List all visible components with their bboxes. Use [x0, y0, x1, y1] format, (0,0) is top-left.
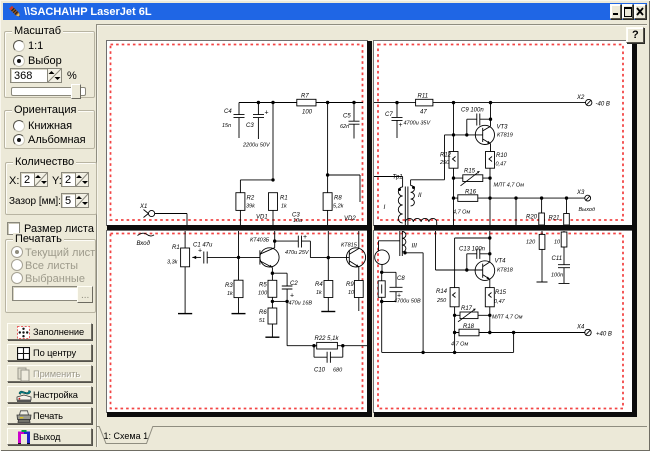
node junction dots on rail: [257, 101, 260, 104]
resistor R16: [454, 197, 491, 199]
svg-text:0,47: 0,47: [494, 299, 506, 305]
svg-text:R18: R18: [463, 324, 475, 330]
wire from tile1 R8: [327, 231, 329, 258]
svg-text:VT3: VT3: [497, 125, 509, 131]
button Настройка: [7, 386, 92, 403]
svg-text:R1: R1: [172, 245, 180, 251]
resistor R11: [416, 99, 433, 106]
capacitor C8 electrolytic: [382, 272, 403, 301]
resistor R4: [327, 258, 329, 281]
checkbox Размер листа: [7, 222, 20, 235]
trimmer R17: [455, 314, 490, 316]
svg-text:39k: 39k: [246, 204, 255, 210]
wire R12 branch: [453, 103, 455, 152]
wire feedback: [287, 301, 314, 345]
wire winding I to speaker: [379, 241, 400, 252]
capacitor C4: [234, 103, 245, 139]
svg-text:470u 25V: 470u 25V: [285, 250, 310, 256]
transistor VT3: [475, 125, 494, 144]
terminal X2: [586, 99, 592, 105]
button Заполнение: [7, 323, 92, 340]
svg-text:II: II: [418, 192, 422, 199]
wire to VD2: [328, 175, 360, 202]
svg-text:R21: R21: [549, 216, 560, 222]
resistor R3: [238, 231, 240, 280]
svg-text:X3: X3: [576, 190, 585, 196]
page 1 margin (red dashed): [111, 45, 363, 221]
svg-text:62n: 62n: [340, 124, 349, 130]
svg-text:47: 47: [420, 110, 427, 116]
sidebar divider: [96, 24, 97, 447]
resistor R2: [236, 193, 245, 211]
close button: [634, 4, 646, 19]
wire base VT3: [445, 134, 483, 136]
svg-text:R16: R16: [465, 190, 477, 196]
potentiometer R1: [184, 231, 186, 248]
svg-text:КТ403Б: КТ403Б: [250, 238, 270, 244]
help button: [626, 27, 644, 43]
svg-text:VD2: VD2: [344, 216, 356, 222]
group Печатать: [5, 239, 96, 313]
ground: [232, 313, 246, 315]
node emitter dot: [271, 272, 274, 275]
svg-text:R11: R11: [418, 94, 429, 100]
winding III (horizontal, cut): [406, 218, 437, 222]
page 3 margin (red dashed): [111, 234, 363, 409]
svg-text:C1 47u: C1 47u: [193, 243, 213, 249]
resistor R18: [455, 332, 490, 334]
page 4 margin (red dashed): [378, 234, 623, 409]
trimmer R15: [454, 177, 491, 179]
transistor VT1: [260, 248, 279, 267]
svg-text:R15: R15: [495, 290, 507, 296]
svg-text:C9 100n: C9 100n: [461, 108, 484, 114]
resistor R21: [566, 198, 568, 213]
wire to VT1 base: [239, 256, 260, 258]
fuse element: [381, 272, 383, 281]
svg-text:15n: 15n: [222, 123, 231, 129]
svg-text:VD1: VD1: [256, 215, 268, 221]
resistor R9: [354, 281, 363, 298]
capacitor C13: [467, 249, 490, 270]
svg-text:120: 120: [526, 240, 536, 246]
wire to X4: [490, 332, 585, 334]
svg-text:-40 В: -40 В: [596, 102, 610, 108]
capacitor C2 electrolytic: [272, 273, 292, 301]
min button: [610, 4, 621, 19]
resistor R12: [449, 152, 458, 169]
svg-text:R15: R15: [464, 169, 476, 175]
wire from X1: [155, 214, 187, 226]
svg-text:R5: R5: [259, 283, 267, 289]
svg-text:I: I: [384, 204, 386, 211]
svg-text:R6: R6: [259, 310, 267, 316]
node A dot: [271, 178, 274, 181]
svg-text:C11: C11: [552, 256, 563, 262]
svg-text:4700u 50В: 4700u 50В: [394, 299, 421, 305]
junction dots: [395, 101, 398, 104]
svg-text:VT4: VT4: [495, 259, 507, 265]
resistor R10: [486, 152, 495, 169]
svg-text:C4: C4: [224, 109, 232, 115]
svg-text:680: 680: [333, 368, 343, 374]
svg-text:III: III: [412, 243, 418, 250]
svg-text:R17: R17: [461, 306, 473, 312]
winding start dots: [398, 188, 401, 191]
page 2 margin (red dashed): [378, 45, 623, 221]
svg-text:10: 10: [554, 240, 561, 246]
svg-text:4700u 35V: 4700u 35V: [404, 121, 432, 127]
client panel top groove: [96, 24, 647, 25]
svg-text:R7: R7: [301, 94, 309, 100]
capacitor C5: [349, 103, 360, 139]
svg-text:КТ815: КТ815: [341, 243, 358, 249]
svg-text:10: 10: [348, 290, 355, 296]
capacitor C7 electrolytic: [392, 103, 403, 138]
winding II: [411, 135, 445, 186]
wire supply rail: [239, 102, 363, 104]
svg-text:Вход: Вход: [137, 241, 151, 247]
svg-text:R2: R2: [247, 196, 255, 202]
connector X1 (cut): [138, 233, 155, 236]
svg-text:КТ819: КТ819: [497, 133, 513, 139]
wire below R12: [453, 168, 455, 225]
svg-text:КТ818: КТ818: [497, 268, 514, 274]
svg-text:470u 16В: 470u 16В: [289, 301, 313, 307]
svg-text:+: +: [198, 248, 202, 255]
wire branch: [515, 198, 517, 225]
sheet tab: [94, 426, 164, 445]
svg-text:МЛТ 4,7 Ом: МЛТ 4,7 Ом: [492, 315, 523, 321]
wires below resistors: [455, 307, 490, 353]
svg-text:4,7 Ом: 4,7 Ом: [451, 342, 468, 348]
svg-text:C8: C8: [397, 276, 405, 282]
button По центру: [7, 344, 92, 361]
svg-text:R22 5,1k: R22 5,1k: [315, 336, 340, 342]
wire R8 branch: [327, 103, 329, 176]
wire supply rail: [374, 102, 586, 104]
svg-text:R8: R8: [334, 196, 342, 202]
svg-text:Тр1: Тр1: [393, 175, 403, 181]
svg-text:2200u 50V: 2200u 50V: [242, 143, 271, 149]
group Ориентация: [4, 110, 95, 149]
svg-text:+: +: [399, 122, 403, 129]
button Печать: [7, 407, 92, 424]
terminal X3: [585, 195, 591, 201]
svg-text:C2: C2: [290, 281, 298, 287]
slider: [11, 87, 86, 96]
resistor R20 (cont.): [541, 231, 543, 234]
resistor R22: [317, 342, 338, 349]
capacitor C10: [314, 346, 343, 363]
resistor R20: [541, 198, 543, 213]
svg-text:C7: C7: [385, 112, 393, 118]
wire center vertical: [272, 103, 274, 180]
svg-text:5,2k: 5,2k: [333, 204, 344, 210]
svg-text:X1: X1: [139, 204, 147, 210]
svg-text:МЛТ 4,7 Ом: МЛТ 4,7 Ом: [494, 183, 525, 189]
svg-text:R9: R9: [346, 282, 354, 288]
resistor R8: [323, 193, 332, 211]
svg-text:X2: X2: [576, 95, 585, 101]
wire feedback bottom: [382, 333, 514, 353]
svg-text:C5: C5: [343, 114, 351, 120]
resistor R7: [297, 99, 316, 106]
wire base VT4: [465, 268, 468, 271]
resistor R5: [271, 273, 273, 280]
capacitor C9: [467, 114, 491, 135]
svg-text:51: 51: [259, 318, 265, 324]
wire top loop: [436, 231, 483, 270]
svg-text:Выход: Выход: [579, 207, 596, 213]
svg-text:C13 100n: C13 100n: [459, 247, 486, 253]
transformer core (cont.): [400, 231, 403, 256]
svg-text:C10: C10: [314, 368, 326, 374]
wire from winding III: [405, 253, 423, 353]
svg-text:R10: R10: [496, 153, 508, 159]
button Применить (disabled): [7, 365, 92, 382]
transistor VT2: [346, 248, 365, 267]
svg-text:0,47: 0,47: [496, 162, 508, 168]
ground: [265, 336, 279, 338]
svg-text:+40 В: +40 В: [596, 332, 612, 338]
svg-text:+: +: [290, 293, 294, 300]
max button: [622, 4, 633, 19]
terminal X4: [585, 329, 591, 335]
svg-text:1k: 1k: [227, 291, 233, 297]
capacitor C6 coupling electrolytic: [273, 239, 276, 242]
svg-text:250: 250: [436, 298, 447, 304]
resistor R6: [271, 301, 273, 308]
wire to X3: [490, 197, 585, 199]
svg-text:3,3k: 3,3k: [167, 260, 178, 266]
svg-text:R1: R1: [280, 196, 288, 202]
wire to R2: [240, 180, 273, 193]
resistor R1: [269, 193, 278, 211]
node dot: [327, 256, 330, 259]
transformer core: [405, 187, 408, 226]
button Выход: [7, 428, 92, 445]
svg-text:10u: 10u: [293, 218, 302, 224]
resistor R21 + capacitor C11 (cont.): [563, 231, 565, 232]
svg-text:100n: 100n: [551, 273, 563, 279]
svg-text:R12: R12: [440, 153, 452, 159]
ground: [178, 313, 192, 315]
svg-text:4,7 Ом: 4,7 Ом: [453, 210, 470, 216]
title bar: [3, 3, 647, 20]
group Количество: [5, 162, 97, 215]
winding III (cont.): [402, 232, 406, 252]
svg-text:C3: C3: [246, 123, 254, 129]
pages: [106, 40, 368, 226]
wire to VT2 base: [328, 257, 349, 259]
resistor R14: [450, 288, 459, 307]
svg-text:+: +: [265, 110, 269, 117]
group Масштаб: [4, 31, 95, 98]
wire down to feedback rail: [381, 302, 383, 353]
capacitor C3 electrolytic: [253, 103, 264, 140]
svg-text:R14: R14: [436, 289, 448, 295]
svg-text:+: +: [303, 234, 307, 241]
svg-text:100: 100: [258, 291, 268, 297]
transistor VT4: [475, 261, 495, 281]
svg-text:1k: 1k: [316, 290, 322, 296]
bottom tab strip: [96, 426, 647, 427]
winding I: [374, 177, 403, 188]
svg-text:100: 100: [302, 110, 313, 116]
ground: [321, 311, 335, 313]
resistor R15b: [485, 288, 494, 307]
svg-text:R20: R20: [526, 215, 538, 221]
wire below R10: [489, 168, 491, 225]
node dot: [237, 256, 240, 259]
svg-text:X4: X4: [576, 325, 585, 331]
speaker circle: [375, 250, 390, 265]
pencil icon: [7, 4, 23, 20]
svg-text:R3: R3: [225, 283, 233, 289]
svg-text:1k: 1k: [281, 204, 287, 210]
svg-text:R4: R4: [315, 282, 323, 288]
